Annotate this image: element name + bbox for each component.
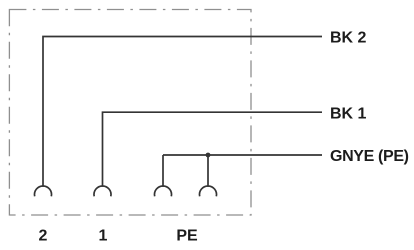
svg-text:2: 2 xyxy=(39,227,48,244)
contact pin PE left (socket arc) xyxy=(155,186,172,196)
wire BK1 (pin 1 to label) xyxy=(103,112,323,187)
wire GNYE horizontal (PE bus to label) xyxy=(163,154,322,156)
wire BK2 (pin 2 to label) xyxy=(43,37,322,187)
svg-text:PE: PE xyxy=(176,227,198,244)
contact pin 2 (socket arc) xyxy=(35,186,52,196)
svg-text:GNYE (PE): GNYE (PE) xyxy=(330,148,409,165)
svg-text:1: 1 xyxy=(99,227,108,244)
junction dot xyxy=(206,153,211,158)
wire PE drop right xyxy=(207,155,209,187)
wire PE drop left xyxy=(162,155,164,187)
svg-text:BK 1: BK 1 xyxy=(330,105,367,122)
contact pin PE right (socket arc) xyxy=(200,186,217,196)
contact pin 1 (socket arc) xyxy=(94,186,111,196)
svg-text:BK 2: BK 2 xyxy=(330,30,367,47)
cable boundary (dash-dot frame) xyxy=(9,10,251,216)
